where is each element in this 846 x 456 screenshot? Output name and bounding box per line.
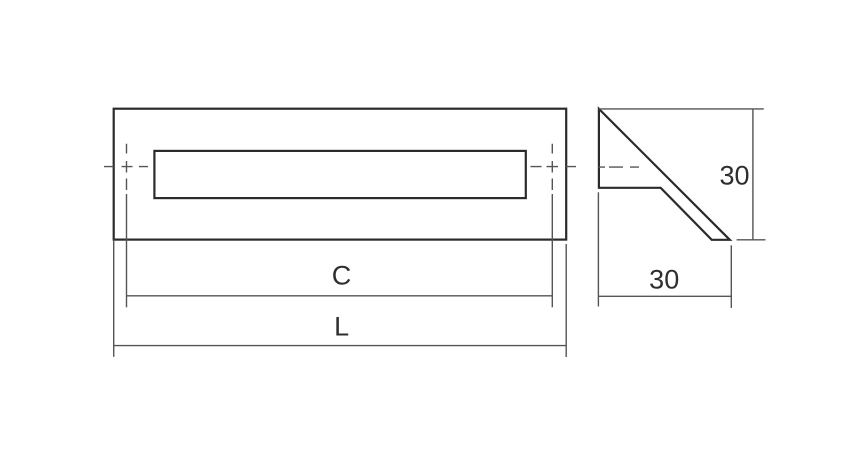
- side view top extension line: [599, 108, 764, 110]
- front view outer plate: [114, 109, 567, 240]
- L dimension line: [114, 345, 567, 347]
- front view slot opening: [154, 151, 525, 198]
- left hole centerline horizontal dashes: [104, 166, 148, 168]
- side view screw centerline dashes: [598, 166, 639, 168]
- right hole centerline vertical dashes: [551, 144, 553, 190]
- right hole extension line (to C dim): [551, 194, 553, 307]
- side view width right extension: [730, 245, 732, 308]
- svg-text:L: L: [334, 312, 349, 342]
- L extension left: [113, 240, 115, 357]
- side view profile: [599, 109, 730, 240]
- side view height bottom extension: [737, 239, 766, 241]
- L extension right: [565, 244, 567, 357]
- left hole centerline vertical dashes: [126, 144, 128, 190]
- side view width left extension: [597, 192, 599, 306]
- svg-text:30: 30: [649, 265, 679, 295]
- side view height dimension line 30: [752, 109, 754, 240]
- side view width dimension line 30: [598, 295, 731, 297]
- svg-text:30: 30: [719, 161, 749, 191]
- left hole extension line (to C dim): [126, 194, 128, 307]
- C dimension line: [127, 295, 553, 297]
- right hole centerline horizontal dashes: [531, 166, 577, 168]
- svg-text:C: C: [332, 260, 352, 290]
